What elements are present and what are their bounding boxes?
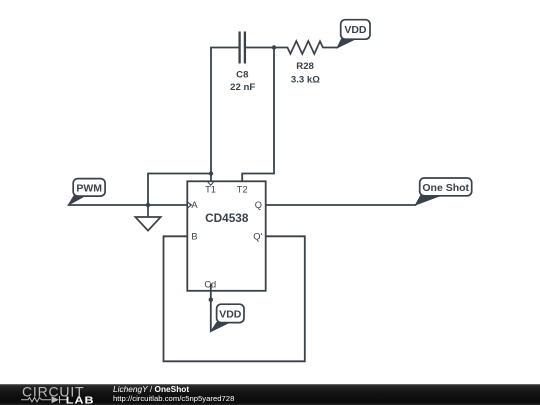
- svg-text:One Shot: One Shot: [422, 182, 469, 194]
- wire: [164, 236, 305, 361]
- svg-text:T2: T2: [237, 185, 248, 195]
- wire: [266, 204, 416, 206]
- svg-text:A: A: [191, 200, 198, 210]
- footer credit text: [113, 385, 234, 404]
- wire: [211, 47, 239, 49]
- node junction dot: [209, 298, 213, 302]
- flag VDD (top right): [337, 20, 370, 48]
- svg-text:Q': Q': [253, 232, 262, 242]
- wire (Cd pin stub over label): [210, 284, 212, 292]
- flag VDD (bottom, at Cd): [211, 304, 244, 331]
- svg-text:B: B: [191, 232, 197, 242]
- svg-text:CD4538: CD4538: [205, 211, 249, 225]
- footer bar: [0, 384, 540, 405]
- wire: [273, 48, 275, 174]
- wire: [246, 47, 288, 49]
- pin T1 edge marker: [208, 182, 214, 186]
- wire: [242, 174, 274, 182]
- svg-text:Q: Q: [255, 200, 262, 210]
- op-amp U1 : IC CD4538 box: [187, 181, 265, 290]
- flag One Shot: [416, 178, 472, 205]
- svg-text:T1: T1: [205, 185, 216, 195]
- svg-text:VDD: VDD: [219, 308, 242, 320]
- svg-text:LAB: LAB: [66, 396, 95, 405]
- wire: [210, 48, 212, 182]
- wire: [148, 173, 211, 175]
- resistor R28: [288, 41, 323, 54]
- node junction dot: [272, 45, 276, 49]
- wire: [69, 204, 188, 206]
- node junction dot: [146, 203, 150, 207]
- flag PWM: [68, 179, 105, 205]
- svg-text:PWM: PWM: [76, 182, 102, 194]
- node junction dot: [209, 171, 213, 175]
- svg-text:R28: R28: [296, 61, 314, 72]
- svg-text:22 nF: 22 nF: [230, 82, 255, 93]
- pin A arrow marker: [187, 202, 191, 208]
- svg-text:C8: C8: [236, 70, 249, 81]
- svg-text:3.3 kΩ: 3.3 kΩ: [291, 74, 320, 85]
- capacitor C8: [240, 32, 245, 64]
- wire: [210, 284, 212, 332]
- wire: [147, 174, 149, 206]
- CircuitLab logo: [0, 384, 100, 405]
- ground: [135, 205, 160, 231]
- wire: [323, 47, 338, 49]
- svg-text:VDD: VDD: [344, 24, 367, 36]
